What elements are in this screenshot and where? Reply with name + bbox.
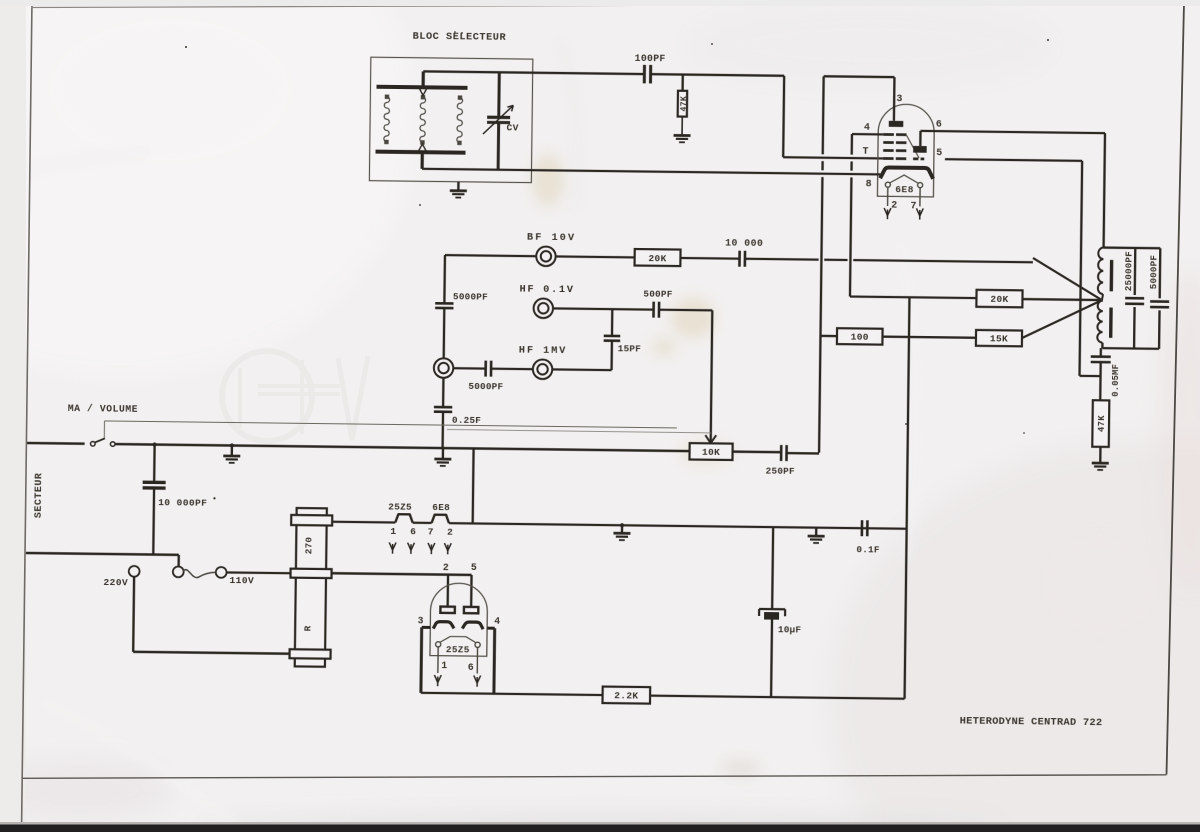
svg-text:10 000PF: 10 000PF	[158, 497, 207, 509]
svg-text:R: R	[303, 625, 314, 631]
svg-text:0.1F: 0.1F	[856, 544, 880, 555]
svg-text:HF 0.1V: HF 0.1V	[519, 283, 574, 296]
svg-text:6: 6	[410, 526, 416, 537]
svg-text:10µF: 10µF	[778, 624, 802, 635]
svg-text:25Z5: 25Z5	[446, 644, 470, 655]
svg-text:6: 6	[936, 120, 942, 131]
svg-text:CV: CV	[506, 122, 518, 133]
svg-text:100PF: 100PF	[635, 53, 666, 64]
svg-text:47K: 47K	[1097, 415, 1107, 432]
svg-text:1: 1	[441, 660, 447, 671]
svg-text:2: 2	[443, 562, 449, 573]
svg-text:270: 270	[303, 537, 314, 555]
svg-text:8: 8	[866, 179, 872, 190]
svg-text:T: T	[862, 146, 868, 157]
svg-text:5: 5	[936, 148, 942, 159]
svg-text:SECTEUR: SECTEUR	[34, 473, 46, 519]
svg-text:7: 7	[910, 201, 916, 212]
svg-text:BF 10V: BF 10V	[527, 231, 576, 244]
svg-text:2.2K: 2.2K	[614, 690, 638, 701]
svg-text:5000PF: 5000PF	[468, 381, 503, 392]
svg-text:6: 6	[468, 662, 474, 673]
svg-text:100: 100	[851, 332, 869, 343]
svg-text:HF 1MV: HF 1MV	[519, 345, 568, 358]
svg-text:20K: 20K	[648, 253, 666, 264]
svg-text:10 000: 10 000	[725, 238, 763, 249]
svg-text:20K: 20K	[990, 294, 1008, 305]
svg-text:47K: 47K	[680, 96, 689, 112]
svg-text:500PF: 500PF	[643, 288, 672, 299]
svg-text:2: 2	[447, 526, 453, 537]
svg-text:0.25F: 0.25F	[452, 415, 481, 426]
svg-text:25Z5: 25Z5	[388, 501, 412, 512]
svg-text:4: 4	[494, 616, 500, 627]
svg-text:BLOC SELECTEUR: BLOC SELECTEUR	[413, 31, 507, 44]
svg-text:5000PF: 5000PF	[1148, 255, 1159, 289]
svg-text:3: 3	[896, 94, 902, 105]
svg-text:220V: 220V	[103, 577, 128, 588]
svg-text:15PF: 15PF	[618, 343, 642, 354]
svg-text:6E8: 6E8	[895, 184, 914, 195]
svg-text:HETERODYNE CENTRAD 722: HETERODYNE CENTRAD 722	[960, 716, 1103, 730]
svg-text:250PF: 250PF	[766, 466, 795, 477]
svg-text:110V: 110V	[229, 575, 254, 586]
svg-text:7: 7	[428, 526, 434, 537]
svg-text:25000PF: 25000PF	[1123, 251, 1134, 291]
svg-text:MA / VOLUME: MA / VOLUME	[68, 403, 138, 415]
svg-text:0.05MF: 0.05MF	[1111, 364, 1121, 397]
svg-text:15K: 15K	[990, 333, 1008, 344]
svg-text:4: 4	[864, 123, 870, 134]
svg-text:3: 3	[418, 615, 424, 626]
svg-text:1: 1	[390, 526, 396, 537]
svg-text:2: 2	[891, 201, 897, 212]
svg-text:6E8: 6E8	[432, 502, 450, 513]
svg-text:5: 5	[471, 562, 477, 573]
svg-text:5000PF: 5000PF	[453, 291, 488, 302]
svg-text:10K: 10K	[702, 447, 720, 458]
